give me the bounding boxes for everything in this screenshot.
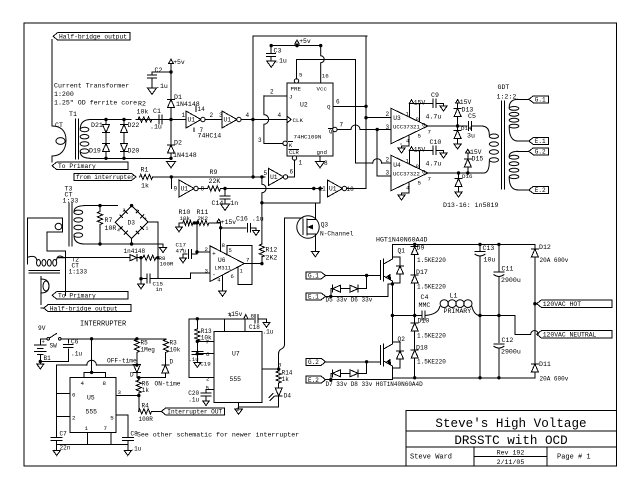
svg-text:gnd: gnd <box>317 149 327 156</box>
svg-text:Vcc: Vcc <box>317 86 328 93</box>
svg-text:7: 7 <box>428 176 432 183</box>
svg-text:10k: 10k <box>170 347 181 354</box>
svg-text:5: 5 <box>418 133 422 140</box>
svg-text:2K2: 2K2 <box>266 255 278 262</box>
svg-text:1.25" OD ferrite core: 1.25" OD ferrite core <box>54 100 137 107</box>
svg-text:C19: C19 <box>200 360 211 367</box>
svg-text:PRIMARY: PRIMARY <box>444 308 472 315</box>
svg-text:Q3: Q3 <box>321 222 329 229</box>
svg-text:5: 5 <box>299 72 303 79</box>
svg-text:To Primary: To Primary <box>58 293 96 300</box>
svg-text:U6: U6 <box>218 257 226 264</box>
svg-text:C9: C9 <box>431 92 439 99</box>
svg-text:R3: R3 <box>170 340 178 347</box>
svg-text:1: 1 <box>299 160 303 167</box>
svg-text:E.2: E.2 <box>308 377 319 384</box>
svg-text:22n: 22n <box>60 445 71 452</box>
svg-text:1:133: 1:133 <box>69 269 88 276</box>
svg-text:10k: 10k <box>180 215 191 222</box>
svg-text:T1: T1 <box>69 111 77 118</box>
svg-text:+: + <box>144 215 147 222</box>
svg-text:See other schematic for newer: See other schematic for newer interrupte… <box>137 432 299 439</box>
svg-text:U1: U1 <box>224 117 232 124</box>
svg-text:1: 1 <box>182 112 186 119</box>
svg-text:L1: L1 <box>450 292 458 299</box>
svg-text:1N4148: 1N4148 <box>173 152 197 159</box>
svg-text:D20: D20 <box>128 148 140 155</box>
svg-text:+: + <box>181 247 184 253</box>
svg-text:Interrupter OUT: Interrupter OUT <box>167 409 222 416</box>
svg-text:G.2: G.2 <box>308 359 319 366</box>
svg-text:1k: 1k <box>141 183 149 190</box>
svg-text:16: 16 <box>322 73 329 80</box>
svg-text:C8: C8 <box>131 431 139 438</box>
svg-text:1k: 1k <box>142 387 150 394</box>
svg-text:10u: 10u <box>484 257 496 264</box>
svg-text:+: + <box>42 338 45 345</box>
svg-text:2K2: 2K2 <box>198 215 209 222</box>
svg-text:K: K <box>289 142 293 149</box>
svg-text:1n: 1n <box>230 200 238 207</box>
svg-text:8: 8 <box>324 160 328 167</box>
svg-text:20A 600v: 20A 600v <box>540 376 569 383</box>
svg-text:D: D <box>170 359 174 366</box>
svg-text:To Primary: To Primary <box>58 163 96 170</box>
svg-text:3u: 3u <box>467 133 475 140</box>
svg-text:22K: 22K <box>209 178 221 185</box>
svg-text:U1: U1 <box>270 174 278 181</box>
svg-text:2: 2 <box>270 89 274 96</box>
svg-text:R1: R1 <box>141 167 149 174</box>
svg-text:4: 4 <box>81 380 85 387</box>
svg-text:4.7u: 4.7u <box>426 161 442 168</box>
svg-text:2: 2 <box>386 111 390 118</box>
svg-text:8: 8 <box>103 380 107 387</box>
svg-text:E.1: E.1 <box>535 138 546 145</box>
svg-text:6: 6 <box>206 351 210 358</box>
svg-text:D2: D2 <box>174 140 182 147</box>
svg-text:1: 1 <box>406 111 410 118</box>
svg-text:4.7u: 4.7u <box>426 114 442 121</box>
svg-text:1: 1 <box>85 425 89 432</box>
svg-text:U1: U1 <box>329 186 337 193</box>
svg-text:3: 3 <box>219 112 223 119</box>
svg-text:7: 7 <box>104 425 108 432</box>
svg-text:.1u: .1u <box>71 351 82 358</box>
svg-text:8: 8 <box>416 163 420 170</box>
svg-text:INTERRUPTER: INTERRUPTER <box>80 321 127 329</box>
svg-text:D: D <box>130 372 134 379</box>
svg-text:R4: R4 <box>142 403 150 410</box>
svg-text:20A 600v: 20A 600v <box>540 257 569 264</box>
svg-text:Steve's High Voltage: Steve's High Voltage <box>435 417 586 431</box>
svg-text:C5: C5 <box>468 113 476 120</box>
svg-text:1.5KE220: 1.5KE220 <box>417 257 446 264</box>
svg-text:6: 6 <box>290 169 294 176</box>
svg-text:2900u: 2900u <box>501 349 521 356</box>
svg-text:CT: CT <box>55 122 63 129</box>
svg-text:7: 7 <box>200 127 204 134</box>
svg-text:9V: 9V <box>38 325 46 332</box>
svg-text:U2: U2 <box>300 102 308 109</box>
svg-text:2: 2 <box>123 208 126 214</box>
svg-text:U7: U7 <box>232 351 240 358</box>
svg-text:15V: 15V <box>460 99 472 106</box>
svg-text:+5v: +5v <box>299 38 311 45</box>
svg-text:Q2: Q2 <box>398 336 406 343</box>
svg-text:1:200: 1:200 <box>54 91 74 98</box>
svg-text:1Meg: 1Meg <box>141 347 156 354</box>
svg-text:7: 7 <box>246 257 250 264</box>
svg-text:DRSSTC with OCD: DRSSTC with OCD <box>454 434 567 448</box>
svg-text:2: 2 <box>206 376 210 383</box>
svg-text:D12: D12 <box>539 244 551 251</box>
svg-text:D11: D11 <box>539 361 551 368</box>
svg-text:1n: 1n <box>156 286 163 293</box>
svg-text:C18: C18 <box>249 324 260 331</box>
svg-text:5: 5 <box>110 415 114 422</box>
svg-text:R12: R12 <box>266 247 278 254</box>
svg-text:+15v: +15v <box>221 219 237 226</box>
svg-text:C1: C1 <box>153 108 161 115</box>
svg-text:5: 5 <box>264 170 268 177</box>
svg-text:UCC37321: UCC37321 <box>393 124 420 131</box>
svg-text:C11: C11 <box>502 266 514 273</box>
svg-text:Steve Ward: Steve Ward <box>410 454 452 462</box>
svg-text:1:2:2: 1:2:2 <box>497 94 517 101</box>
svg-text:3: 3 <box>386 170 390 177</box>
svg-text:555: 555 <box>86 409 98 416</box>
svg-text:.1u: .1u <box>263 329 274 336</box>
svg-text:10: 10 <box>347 186 355 193</box>
svg-text:D5 33v D6 33v: D5 33v D6 33v <box>326 296 373 303</box>
svg-text:100R: 100R <box>139 416 154 423</box>
svg-text:74HC109N: 74HC109N <box>294 134 322 141</box>
svg-text:2: 2 <box>386 157 390 164</box>
svg-text:3: 3 <box>118 389 122 396</box>
svg-text:6: 6 <box>336 99 340 106</box>
svg-text:1k: 1k <box>282 376 290 383</box>
svg-text:CLK: CLK <box>293 117 304 124</box>
svg-text:1n4148: 1n4148 <box>124 248 146 255</box>
svg-text:MMC: MMC <box>419 302 431 309</box>
svg-text:D4: D4 <box>284 393 292 400</box>
svg-text:C7: C7 <box>60 431 68 438</box>
svg-text:8: 8 <box>416 116 420 123</box>
svg-text:.1u: .1u <box>188 397 199 404</box>
svg-text:Page # 1: Page # 1 <box>557 454 591 462</box>
svg-text:U3: U3 <box>393 115 401 122</box>
svg-text:6: 6 <box>72 392 76 399</box>
svg-text:8: 8 <box>222 242 226 249</box>
svg-text:5: 5 <box>229 247 232 254</box>
svg-text:D7 33v D8 33v HGT1N40N60A4D: D7 33v D8 33v HGT1N40N60A4D <box>326 381 424 388</box>
svg-text:C12: C12 <box>502 337 514 344</box>
svg-text:2: 2 <box>72 415 76 422</box>
svg-text:Current Transformer: Current Transformer <box>54 83 129 90</box>
svg-text:100R: 100R <box>160 261 174 268</box>
svg-text:G.2: G.2 <box>535 149 546 156</box>
svg-text:120VAC NEUTRAL: 120VAC NEUTRAL <box>543 332 597 339</box>
svg-text:C4: C4 <box>421 294 429 301</box>
svg-text:GDT: GDT <box>498 84 510 91</box>
svg-text:10k: 10k <box>137 109 149 116</box>
svg-text:4: 4 <box>246 112 250 119</box>
svg-text:4: 4 <box>117 228 120 234</box>
svg-text:9: 9 <box>174 186 178 193</box>
svg-text:2/11/05: 2/11/05 <box>497 459 525 466</box>
svg-text:D15: D15 <box>472 156 484 163</box>
svg-text:CLR: CLR <box>289 150 299 156</box>
svg-text:U4: U4 <box>393 162 401 169</box>
svg-text:HGT1N40N60A4D: HGT1N40N60A4D <box>376 237 427 244</box>
svg-text:1.5KE220: 1.5KE220 <box>417 284 446 291</box>
svg-text:C14: C14 <box>212 200 224 207</box>
svg-text:3: 3 <box>386 124 390 131</box>
svg-text:D3: D3 <box>128 220 136 227</box>
svg-text:D16: D16 <box>462 173 473 180</box>
svg-text:1.5KE220: 1.5KE220 <box>417 359 446 366</box>
svg-text:D1: D1 <box>174 94 182 101</box>
svg-text:D10: D10 <box>418 318 430 325</box>
svg-text:7: 7 <box>340 122 344 129</box>
svg-text:J: J <box>289 93 292 100</box>
svg-text:Half-bridge output: Half-bridge output <box>50 305 118 312</box>
svg-text:Q1: Q1 <box>398 248 406 255</box>
svg-text:6: 6 <box>422 169 426 176</box>
svg-text:1.5KE220: 1.5KE220 <box>417 333 446 340</box>
svg-text:10R: 10R <box>105 225 117 232</box>
svg-text:UCC37322: UCC37322 <box>393 171 420 178</box>
svg-text:+: + <box>212 251 216 258</box>
svg-text:ON-time: ON-time <box>155 381 181 388</box>
svg-text:D21: D21 <box>91 122 103 129</box>
svg-text:C13: C13 <box>483 245 495 252</box>
svg-text:C6: C6 <box>71 339 79 346</box>
svg-text:555: 555 <box>230 376 242 383</box>
svg-text:D19: D19 <box>89 148 101 155</box>
svg-text:Rev 192: Rev 192 <box>497 450 525 457</box>
svg-text:U1: U1 <box>188 117 196 124</box>
svg-text:C2: C2 <box>155 67 163 74</box>
svg-text:Half-bridge output: Half-bridge output <box>59 34 127 41</box>
svg-text:2900u: 2900u <box>501 277 521 284</box>
svg-text:7: 7 <box>428 129 432 136</box>
svg-text:R9: R9 <box>210 169 218 176</box>
svg-text:.1u: .1u <box>150 124 162 131</box>
svg-text:120VAC HOT: 120VAC HOT <box>543 301 582 308</box>
svg-text:R5: R5 <box>141 340 149 347</box>
svg-text:2: 2 <box>210 112 214 119</box>
svg-text:Q: Q <box>329 128 333 135</box>
svg-text:from interrupter: from interrupter <box>76 174 135 181</box>
svg-text:LM311: LM311 <box>215 265 232 272</box>
svg-text:6: 6 <box>231 273 234 280</box>
svg-text:G.1: G.1 <box>535 97 546 104</box>
svg-text:C3: C3 <box>274 48 282 55</box>
svg-text:N-Channel: N-Channel <box>320 230 354 237</box>
svg-text:D22: D22 <box>128 122 140 129</box>
svg-text:5: 5 <box>418 180 422 187</box>
svg-text:E.1: E.1 <box>308 294 319 301</box>
svg-text:D9: D9 <box>417 245 425 252</box>
svg-text:1: 1 <box>406 158 410 165</box>
svg-text:C16 .1u: C16 .1u <box>236 216 264 223</box>
svg-text:Q: Q <box>327 104 331 111</box>
svg-text:SW: SW <box>50 343 58 350</box>
svg-text:E.2: E.2 <box>535 187 546 194</box>
svg-text:PRE: PRE <box>291 86 302 93</box>
svg-text:U5: U5 <box>87 395 95 402</box>
svg-text:3: 3 <box>278 362 282 369</box>
svg-text:D14: D14 <box>461 125 472 132</box>
svg-text:.1u: .1u <box>275 58 287 65</box>
svg-text:-: - <box>212 272 216 279</box>
svg-text:3: 3 <box>258 137 262 144</box>
svg-text:10k: 10k <box>201 335 212 342</box>
svg-text:+15v: +15v <box>228 311 243 318</box>
svg-text:14: 14 <box>198 106 206 113</box>
svg-text:C10: C10 <box>430 139 442 146</box>
svg-text:.1u: .1u <box>189 356 199 363</box>
svg-text:.1u: .1u <box>131 446 142 453</box>
svg-text:.1u: .1u <box>156 83 168 90</box>
svg-text:-: - <box>136 206 139 213</box>
svg-text:B1: B1 <box>44 355 52 362</box>
svg-text:OFF-time: OFF-time <box>107 358 137 365</box>
svg-text:4: 4 <box>278 112 282 119</box>
svg-text:1:33: 1:33 <box>63 198 79 205</box>
svg-text:D13-16: in5819: D13-16: in5819 <box>443 202 498 209</box>
svg-text:U1: U1 <box>181 186 189 193</box>
svg-text:R2: R2 <box>138 101 146 108</box>
svg-text:6: 6 <box>422 122 426 129</box>
svg-text:R7: R7 <box>105 217 113 224</box>
svg-text:G.1: G.1 <box>308 273 319 280</box>
svg-text:1: 1 <box>146 226 149 232</box>
svg-text:+5v: +5v <box>173 59 185 66</box>
